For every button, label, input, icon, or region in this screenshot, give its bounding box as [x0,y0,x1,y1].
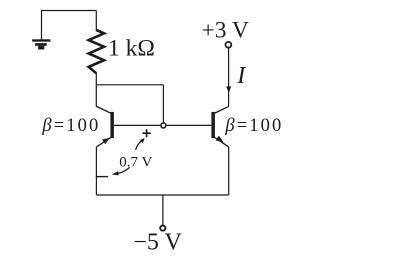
svg-text:I: I [236,63,246,89]
wire ground drop vertical [41,11,43,40]
wire junction horizontal to node drop [96,84,163,86]
wire Q2 emitter vertical [228,147,230,195]
wire node drop vertical [162,85,164,126]
wire Q1 emitter vertical [95,147,97,195]
svg-text:β=100: β=100 [224,116,283,136]
svg-text:0.7 V: 0.7 V [119,154,152,170]
wire -5V stem [162,195,164,225]
transistor Q1 [96,106,114,146]
node B (open circle) [161,123,166,128]
resistor R1 zigzag [89,30,104,73]
wire bottom rail [96,194,228,196]
wire top-left horizontal (ground to resistor top) [42,10,97,12]
svg-text:1 kΩ: 1 kΩ [108,35,155,61]
annotation arrow to minus [112,167,130,175]
wire Q2 collector vertical [228,48,230,107]
annotation minus tick [96,176,108,178]
transistor Q2 [211,106,228,146]
terminal +3V (open circle) [226,42,232,48]
svg-text:−5 V: −5 V [133,229,182,255]
svg-text:+3 V: +3 V [201,17,248,43]
wire Q1 collector vertical [95,85,97,107]
svg-text:β=100: β=100 [41,116,100,136]
wire resistor top lead [95,11,97,32]
wire resistor bottom lead to junction [95,73,97,85]
wire base bus Q1 to Q2 [114,124,211,126]
annotation plus sign [142,129,150,137]
annotation arrow to plus [136,138,145,150]
ground [32,39,50,49]
current arrow I [226,86,231,93]
terminal -5V (open circle) [160,226,165,231]
